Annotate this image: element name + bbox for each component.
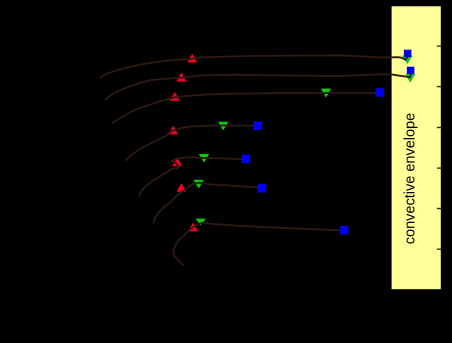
svg-text:convective envelope: convective envelope — [403, 113, 419, 244]
